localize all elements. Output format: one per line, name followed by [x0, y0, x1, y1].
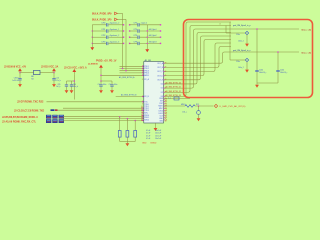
svg-text:10n 1uF: 10n 1uF	[155, 130, 161, 132]
svg-text:22: 22	[166, 103, 168, 105]
svg-text:BULK_PVDD_0P9: BULK_PVDD_0P9	[92, 13, 112, 15]
svg-text:0 1uF: 0 1uF	[146, 130, 150, 132]
svg-text:21: 21	[166, 101, 168, 103]
svg-text:0.1u_b: 0.1u_b	[56, 80, 61, 82]
svg-text:C8/C9: C8/C9	[14, 78, 19, 80]
svg-text:OUT_C: OUT_C	[157, 71, 164, 73]
svg-text:100n/16_c: 100n/16_c	[280, 72, 288, 74]
svg-text:100n_2: 100n_2	[238, 67, 244, 69]
svg-text:J2-D10 VCC_3A: J2-D10 VCC_3A	[41, 65, 59, 68]
svg-text:OUT_E: OUT_E	[157, 79, 164, 81]
svg-text:742: 742	[31, 78, 34, 80]
svg-text:10n 1uF: 10n 1uF	[155, 138, 161, 140]
svg-text:BGND: BGND	[151, 143, 157, 145]
svg-text:J2-A5,A6 RGMII_RXC,RX_CTL: J2-A5,A6 RGMII_RXC,RX_CTL	[2, 121, 37, 124]
svg-text:MDIO: MDIO	[181, 104, 186, 106]
svg-text:C10: C10	[56, 78, 59, 80]
svg-text:OUT_A: OUT_A	[157, 62, 164, 65]
svg-text:+3galvanic_1: +3galvanic_1	[109, 29, 119, 31]
svg-text:RXD2: RXD2	[144, 120, 149, 122]
svg-text:OUT_D: OUT_D	[157, 75, 164, 77]
svg-text:C781: C781	[101, 29, 105, 31]
svg-text:D_SMD_PHY_AD_INT (S): D_SMD_PHY_AD_INT (S)	[220, 105, 246, 108]
svg-text:C780: C780	[101, 23, 105, 25]
svg-text:C31_c: C31_c	[182, 112, 187, 114]
svg-text:C204: C204	[280, 70, 284, 72]
svg-text:27: 27	[166, 115, 168, 117]
svg-text:0 1uF: 0 1uF	[146, 135, 150, 137]
svg-text:D0: D0	[161, 84, 163, 86]
svg-text:AVDD: AVDD	[144, 74, 149, 77]
svg-text:100n/16_c: 100n/16_c	[259, 72, 267, 74]
svg-text:C790: C790	[133, 23, 137, 25]
svg-text:J2-B5,B6,B7,B8 RGMII_RXD0..3: J2-B5,B6,B7,B8 RGMII_RXD0..3	[2, 116, 38, 119]
svg-text:1uF/0.1u: 1uF/0.1u	[12, 80, 18, 82]
svg-text:100n_b: 100n_b	[73, 86, 78, 88]
svg-text:C783: C783	[101, 41, 105, 43]
svg-text:20: 20	[166, 99, 168, 101]
svg-text:J5: J5	[219, 24, 221, 26]
svg-text:46: 46	[165, 71, 167, 73]
svg-text:D1: D1	[161, 88, 163, 90]
svg-text:+3galv_0: +3galv_0	[141, 23, 148, 25]
svg-text:C3: C3	[98, 84, 100, 86]
svg-text:J2-C5,C6,C7,C8 RGMII_TXD: J2-C5,C6,C7,C8 RGMII_TXD	[14, 111, 44, 113]
svg-text:C3: C3	[109, 84, 111, 86]
svg-text:C793: C793	[133, 41, 137, 43]
svg-text:0 1uF: 0 1uF	[146, 133, 150, 135]
svg-text:C792: C792	[133, 35, 137, 37]
svg-text:100n: 100n	[103, 84, 107, 86]
svg-text:C791: C791	[133, 29, 137, 31]
svg-text:BULK_PVDD_1P0: BULK_PVDD_1P0	[92, 19, 112, 21]
svg-text:26: 26	[166, 113, 168, 115]
svg-text:J2-B10/A9 VCC_+5V: J2-B10/A9 VCC_+5V	[4, 65, 26, 68]
svg-text:D2: D2	[161, 92, 163, 94]
svg-text:FB1: FB1	[31, 76, 34, 78]
svg-text:47: 47	[165, 67, 167, 69]
svg-text:C86: C86	[73, 84, 76, 86]
svg-text:C782: C782	[101, 35, 105, 37]
svg-text:C50x: C50x	[236, 34, 240, 36]
svg-text:J2-E9/E10: J2-E9/E10	[88, 64, 99, 66]
svg-text:13: 13	[141, 113, 143, 115]
svg-text:C_x: C_x	[168, 97, 171, 99]
svg-text:16: 16	[141, 120, 143, 122]
svg-text:gnd_SM_Byte0_tx_p: gnd_SM_Byte0_tx_p	[233, 24, 251, 27]
svg-text:Dnn_r_db: Dnn_r_db	[302, 30, 312, 32]
svg-text:J2-D7 RGMII_TXC R22: J2-D7 RGMII_TXC R22	[17, 101, 44, 104]
svg-text:29: 29	[166, 119, 168, 121]
svg-text:0 1uF: 0 1uF	[146, 138, 150, 140]
svg-text:44: 44	[165, 79, 167, 81]
svg-text:25: 25	[166, 110, 168, 112]
svg-text:11: 11	[141, 108, 143, 110]
svg-text:GND: GND	[142, 143, 147, 145]
svg-text:100n: 100n	[114, 84, 118, 86]
svg-text:C85: C85	[57, 84, 60, 86]
svg-text:10n 1uF: 10n 1uF	[155, 133, 161, 135]
svg-text:C50x: C50x	[236, 61, 240, 63]
svg-text:AD_SM: AD_SM	[145, 59, 152, 62]
svg-text:GN2: GN2	[159, 121, 163, 123]
svg-text:28: 28	[166, 117, 168, 119]
svg-text:PVDD_+1V_PD_1V: PVDD_+1V_PD_1V	[96, 61, 117, 63]
svg-text:24: 24	[166, 108, 168, 110]
svg-text:14: 14	[141, 115, 143, 117]
svg-text:48: 48	[165, 63, 167, 65]
svg-text:OUT_B: OUT_B	[157, 67, 164, 69]
svg-text:C204: C204	[259, 70, 263, 72]
svg-text:+3galvanic_3: +3galvanic_3	[109, 41, 119, 43]
svg-text:15: 15	[141, 118, 143, 120]
svg-text:+3galvanic_0: +3galvanic_0	[109, 23, 119, 25]
svg-text:AD_SMD_BYTE0_A: AD_SMD_BYTE0_A	[119, 76, 135, 79]
svg-text:+3galvanic_2: +3galvanic_2	[109, 35, 119, 37]
svg-text:10n 1uF: 10n 1uF	[155, 135, 161, 137]
svg-text:gnd_SM_Byte0_tx_n: gnd_SM_Byte0_tx_n	[233, 49, 251, 52]
svg-text:Dnn_r_db: Dnn_r_db	[302, 53, 312, 55]
svg-text:AD_SMD_BYTE0_B: AD_SMD_BYTE0_B	[121, 94, 137, 97]
svg-text:J2-C10 VCC_+3V3_A: J2-C10 VCC_+3V3_A	[64, 66, 87, 69]
svg-text:1uF_b: 1uF_b	[56, 86, 60, 88]
svg-text:45: 45	[165, 75, 167, 77]
svg-text:100n_2: 100n_2	[238, 40, 244, 42]
